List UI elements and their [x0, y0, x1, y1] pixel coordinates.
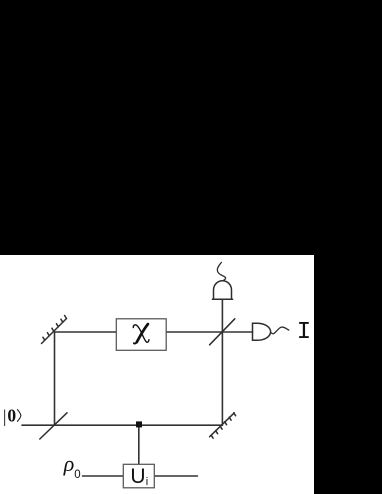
svg-text:I: I [297, 319, 311, 346]
D detector D2 (right) [253, 323, 271, 340]
box Ui [123, 464, 154, 488]
wire: rho0 to Ui box [83, 475, 124, 477]
wire: Ui box to right [154, 475, 197, 477]
squiggle wire of D2 [271, 327, 290, 334]
wire: left vertical arm [54, 332, 56, 425]
mirror M2 (bottom right, hatched) [210, 413, 236, 439]
dome detector D1 (top) [212, 281, 233, 300]
wire: control stem to Ui box [138, 427, 140, 464]
wire: bottom horizontal including |0> input [22, 424, 222, 426]
figure panel (white) [0, 255, 314, 494]
svg-text:U: U [130, 465, 145, 488]
svg-text:|: | [3, 406, 7, 426]
svg-text:0: 0 [7, 406, 16, 426]
svg-text:ρ: ρ [63, 451, 75, 476]
box chi [116, 319, 166, 351]
wire: top horizontal from mirror to chi box [55, 331, 117, 333]
wire: right vertical arm from dome to bottom mirror [221, 299, 223, 425]
svg-text:i: i [146, 476, 148, 488]
svg-text:0: 0 [74, 469, 80, 481]
squiggle wire of D1 [217, 262, 225, 281]
control node (filled square) [136, 421, 142, 427]
label chi (hand-drawn CM-style glyph) [133, 324, 149, 343]
beamsplitter BS1 (top right) [210, 319, 235, 345]
wire: chi box to D detector through beamsplitter [166, 331, 252, 333]
beamsplitter BS2 (bottom left, input) [40, 413, 67, 439]
mirror M1 (top left, hatched) [42, 316, 67, 344]
